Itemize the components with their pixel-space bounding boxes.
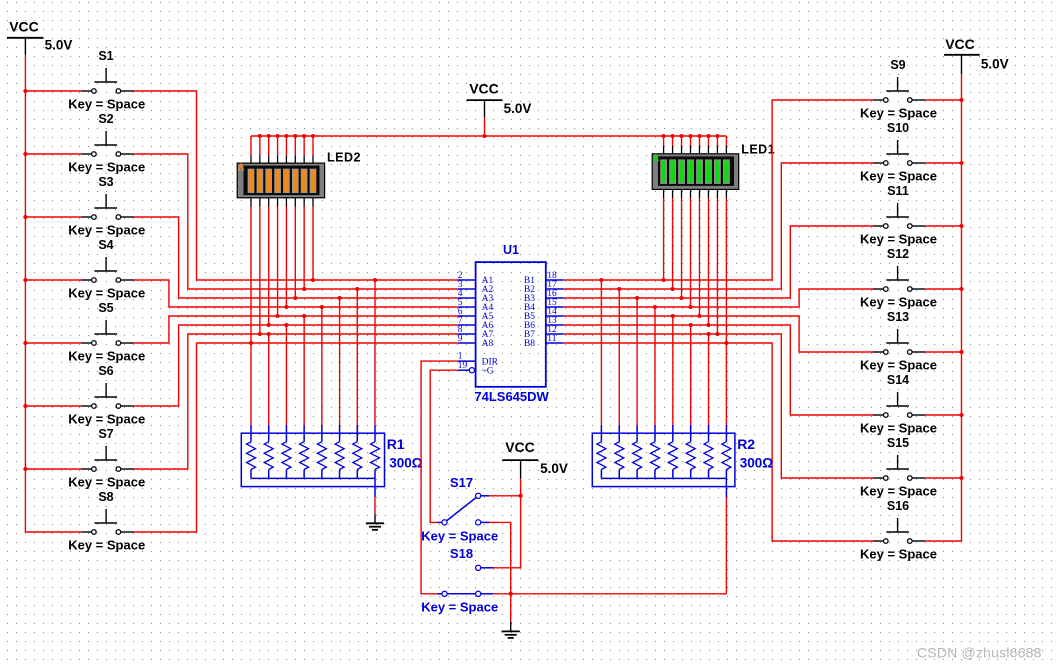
svg-text:S1: S1 bbox=[98, 49, 113, 63]
svg-text:Key = Space: Key = Space bbox=[68, 411, 145, 426]
svg-text:Key = Space: Key = Space bbox=[421, 528, 498, 543]
wire: LED2 pin8 column bbox=[312, 207, 314, 281]
wire: center VCC to bus bbox=[484, 118, 486, 136]
wire: LED1 pin8 / R2-8 column bbox=[725, 198, 727, 425]
wire: S1 output to U1 pin A1 row bbox=[134, 91, 458, 280]
svg-text:CSDN @zhusl6688: CSDN @zhusl6688 bbox=[917, 645, 1042, 661]
svg-text:S8: S8 bbox=[98, 490, 113, 504]
svg-text:S3: S3 bbox=[98, 175, 113, 189]
svg-text:S9: S9 bbox=[890, 58, 905, 72]
svg-text:Key = Space: Key = Space bbox=[68, 348, 145, 363]
switch S2 (pushbutton, Key = Space) bbox=[68, 112, 145, 174]
svg-text:9: 9 bbox=[458, 334, 463, 344]
switch S8 (pushbutton, Key = Space) bbox=[68, 490, 145, 552]
wire: S8 output to U1 pin A8 row bbox=[134, 343, 458, 532]
svg-text:S18: S18 bbox=[450, 546, 473, 561]
svg-text:U1: U1 bbox=[503, 243, 519, 257]
wire: LED2 pin6 column bbox=[294, 207, 296, 299]
wire: S5 output to U1 pin A5 row bbox=[134, 316, 458, 343]
switch S7 (pushbutton, Key = Space) bbox=[68, 427, 145, 489]
wire: U1 DIR (pin1) to S18 pole bbox=[421, 361, 458, 594]
svg-text:S11: S11 bbox=[887, 184, 909, 198]
ground (below S18 node) bbox=[502, 622, 520, 638]
switch S17 (SPDT, Key = Space, selected blue) bbox=[421, 475, 498, 543]
svg-text:Key = Space: Key = Space bbox=[68, 285, 145, 300]
svg-text:B8: B8 bbox=[524, 339, 535, 349]
U1 pin 13 (B6) bbox=[524, 316, 564, 331]
wire: R1-5 column bbox=[321, 307, 323, 425]
wire: right bus feeds to S9-S15 bbox=[925, 100, 962, 478]
svg-text:Key = Space: Key = Space bbox=[860, 420, 937, 435]
power VCC (top-center) 5.0V bbox=[467, 81, 532, 118]
U1 pin 12 (B7) bbox=[524, 325, 564, 340]
U1 pin 1 (DIR) bbox=[458, 352, 499, 368]
svg-text:Key = Space: Key = Space bbox=[68, 474, 145, 489]
svg-text:LED1: LED1 bbox=[741, 142, 775, 156]
U1 pin 18 (B1) bbox=[524, 271, 564, 286]
svg-text:S10: S10 bbox=[887, 121, 909, 135]
svg-text:S15: S15 bbox=[887, 436, 909, 450]
wire: R2-1 column bbox=[600, 280, 602, 425]
switch S18 (SPDT, Key = Space, selected blue) bbox=[421, 546, 498, 615]
wire: S17 bottom throw to ground node bbox=[490, 522, 511, 621]
svg-text:S5: S5 bbox=[98, 301, 113, 315]
power VCC (top-right) 5.0V bbox=[944, 36, 1009, 74]
svg-text:300Ω: 300Ω bbox=[389, 456, 423, 471]
wire: U1 pin B3 row to S11 bbox=[564, 226, 873, 298]
wire: LED2 pin5 / R1-3 column bbox=[285, 207, 287, 425]
svg-text:5.0V: 5.0V bbox=[981, 57, 1009, 72]
switch S10 (pushbutton, Key = Space) bbox=[860, 121, 937, 183]
wire: U1 ~G (pin19) to S17 pole bbox=[430, 370, 458, 522]
switch S15 (pushbutton, Key = Space) bbox=[860, 436, 937, 498]
U1 pin 9 (A8) bbox=[458, 334, 494, 349]
wire: LED1 pin7 column bbox=[716, 198, 718, 334]
wire: VCC bus across LED2 and LED1 tops bbox=[251, 135, 726, 137]
resistor pack R1 300ohm (8 resistors) bbox=[241, 425, 422, 497]
U1 pin 8 (A7) bbox=[458, 325, 494, 340]
switch S11 (pushbutton, Key = Space) bbox=[860, 184, 937, 246]
U1 pin 11 (B8) bbox=[524, 334, 564, 349]
svg-text:Key = Space: Key = Space bbox=[860, 105, 937, 120]
wire: U1 pin B1 row to S9 bbox=[564, 100, 873, 280]
svg-text:R1: R1 bbox=[387, 436, 405, 452]
svg-text:VCC: VCC bbox=[945, 36, 975, 52]
wire: LED1 top pins to VCC bus bbox=[664, 136, 727, 146]
wire: S18 bottom throw to R2 common bbox=[493, 593, 726, 595]
svg-text:Key = Space: Key = Space bbox=[860, 294, 937, 309]
resistor pack R2 300ohm (8 resistors) bbox=[592, 425, 773, 497]
wire: S17 top throw to VCC column bbox=[490, 495, 521, 497]
wire: LED2 top pins to VCC bus bbox=[251, 136, 313, 155]
svg-text:Key = Space: Key = Space bbox=[68, 96, 145, 111]
switch S14 (pushbutton, Key = Space) bbox=[860, 373, 937, 435]
op-amp/IC U1 74LS645DW body bbox=[474, 243, 549, 404]
svg-text:Key = Space: Key = Space bbox=[421, 600, 498, 615]
wire: LED2 pin7 / R1-4 column bbox=[303, 207, 305, 425]
wire: LED2 pin4 column bbox=[277, 207, 279, 317]
svg-text:S6: S6 bbox=[98, 364, 113, 378]
U1 pin 19 (~G, active-low bubble) bbox=[458, 361, 494, 376]
wire: R2-2 column bbox=[618, 289, 620, 425]
switch S4 (pushbutton, Key = Space) bbox=[68, 238, 145, 300]
wire: U1 pin B5 row to S13 bbox=[564, 316, 873, 352]
svg-text:S13: S13 bbox=[887, 310, 909, 324]
svg-text:S4: S4 bbox=[98, 238, 113, 252]
wire: R1-8 column bbox=[374, 280, 376, 425]
svg-text:VCC: VCC bbox=[505, 439, 535, 455]
svg-text:74LS645DW: 74LS645DW bbox=[474, 389, 549, 404]
wire: S6 output to U1 pin A6 row bbox=[134, 325, 458, 406]
U1 pin 2 (A1) bbox=[458, 271, 494, 286]
LED2 bar-graph display (orange) bbox=[237, 151, 361, 198]
U1 pin 14 (B5) bbox=[524, 307, 564, 322]
wire: R2-3 column bbox=[636, 298, 638, 425]
switch S1 (pushbutton, Key = Space) bbox=[68, 49, 145, 111]
U1 pin 6 (A5) bbox=[458, 307, 494, 322]
ground (below R1) bbox=[366, 515, 384, 530]
svg-text:LED2: LED2 bbox=[327, 151, 361, 165]
svg-text:Key = Space: Key = Space bbox=[860, 546, 937, 561]
svg-text:Key = Space: Key = Space bbox=[860, 231, 937, 246]
wire: LED1 pin6 / R2-7 column bbox=[707, 198, 709, 425]
U1 pin 3 (A2) bbox=[458, 280, 494, 295]
svg-text:Key = Space: Key = Space bbox=[68, 537, 145, 552]
wire: S3 output to U1 pin A3 row bbox=[134, 217, 458, 298]
svg-text:A8: A8 bbox=[482, 339, 494, 349]
wire: bottom VCC down to S18 top throw bbox=[494, 479, 521, 568]
wire: LED1 pin2 / R2-5 column bbox=[672, 198, 674, 425]
switch S6 (pushbutton, Key = Space) bbox=[68, 364, 145, 426]
wire: left bus feeds to S1-S7 bbox=[25, 91, 81, 469]
svg-text:S17: S17 bbox=[450, 475, 473, 490]
power VCC (top-left) 5.0V bbox=[7, 19, 72, 55]
switch S16 (pushbutton, Key = Space) bbox=[860, 499, 937, 561]
wire: LED1 pin4 / R2-6 column bbox=[690, 198, 692, 425]
switch S12 (pushbutton, Key = Space) bbox=[860, 247, 937, 309]
svg-text:Key = Space: Key = Space bbox=[860, 357, 937, 372]
LED1 pins (top and bottom) bbox=[664, 146, 727, 198]
wire: U1 pin B7 row to S15 bbox=[564, 334, 873, 478]
wire: LED1 pin1 column bbox=[663, 198, 665, 280]
wire: LED2 pin2 column bbox=[259, 207, 261, 335]
wire: left VCC bus down to S8 bbox=[25, 55, 81, 532]
svg-text:11: 11 bbox=[547, 334, 556, 344]
svg-text:Key = Space: Key = Space bbox=[68, 159, 145, 174]
wire: LED1 pin5 column bbox=[698, 198, 700, 316]
svg-text:Key = Space: Key = Space bbox=[860, 168, 937, 183]
svg-text:S7: S7 bbox=[98, 427, 113, 441]
wire: R2 common down to S18 output row bbox=[725, 497, 727, 594]
svg-text:VCC: VCC bbox=[469, 81, 499, 97]
switch S9 (pushbutton, Key = Space) bbox=[860, 58, 937, 120]
wire: S2 output to U1 pin A2 row bbox=[134, 154, 458, 289]
wire: LED2 pin3 / R1-2 column bbox=[268, 207, 270, 425]
U1 pin 7 (A6) bbox=[458, 316, 494, 331]
wire: right VCC bus down to S16 bbox=[925, 74, 962, 541]
wire: LED1 pin3 column bbox=[681, 198, 683, 298]
wire: R2-4 column bbox=[654, 307, 656, 425]
LED2 pins (top and bottom) bbox=[251, 155, 313, 206]
power VCC (bottom-center) 5.0V bbox=[502, 439, 568, 479]
wire: R1-6 column bbox=[339, 298, 341, 425]
svg-text:VCC: VCC bbox=[9, 19, 39, 35]
wire: R1-7 column bbox=[356, 289, 358, 425]
svg-text:R2: R2 bbox=[737, 436, 755, 452]
wire: LED2 pin1 / R1-1 column bbox=[250, 207, 252, 425]
svg-text:19: 19 bbox=[458, 361, 468, 371]
U1 pin 16 (B3) bbox=[524, 289, 564, 304]
wire: S7 output to U1 pin A7 row bbox=[134, 334, 458, 469]
svg-text:S16: S16 bbox=[887, 499, 909, 513]
U1 pin 5 (A4) bbox=[458, 298, 494, 313]
svg-text:Key = Space: Key = Space bbox=[68, 222, 145, 237]
svg-text:Key = Space: Key = Space bbox=[860, 483, 937, 498]
svg-text:~G: ~G bbox=[482, 366, 494, 376]
U1 pin 4 (A3) bbox=[458, 289, 494, 304]
U1 pin 15 (B4) bbox=[524, 298, 564, 313]
wire: U1 pin B8 row to S16 bbox=[564, 343, 873, 541]
wire: U1 pin B6 row to S14 bbox=[564, 325, 873, 415]
svg-text:S2: S2 bbox=[98, 112, 113, 126]
svg-text:5.0V: 5.0V bbox=[540, 461, 568, 476]
svg-text:5.0V: 5.0V bbox=[45, 38, 73, 53]
svg-text:300Ω: 300Ω bbox=[740, 456, 774, 471]
wire: U1 pin B2 row to S10 bbox=[564, 163, 873, 289]
svg-text:5.0V: 5.0V bbox=[504, 101, 532, 116]
U1 pin 17 (B2) bbox=[524, 280, 564, 295]
wire: R1 common to ground bbox=[374, 497, 376, 515]
switch S13 (pushbutton, Key = Space) bbox=[860, 310, 937, 372]
svg-text:S12: S12 bbox=[887, 247, 909, 261]
wire: S4 output to U1 pin A4 row bbox=[134, 280, 458, 307]
LED1 bar-graph display (green) bbox=[652, 142, 775, 189]
svg-text:S14: S14 bbox=[887, 373, 909, 387]
wire: U1 pin B4 row to S12 bbox=[564, 289, 873, 307]
switch S3 (pushbutton, Key = Space) bbox=[68, 175, 145, 237]
switch S5 (pushbutton, Key = Space) bbox=[68, 301, 145, 363]
